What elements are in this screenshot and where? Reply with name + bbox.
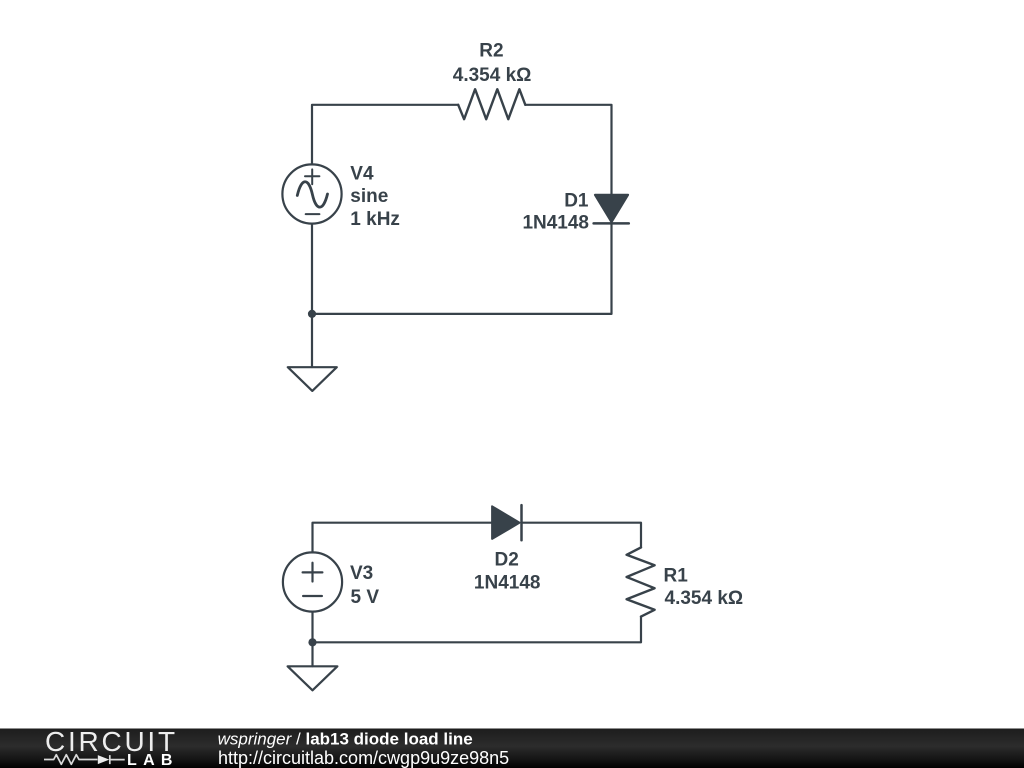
V4 sine wave (297, 182, 327, 207)
wire D2 cathode to resistor R1 top (522, 523, 642, 548)
svg-text:R2: R2 (479, 41, 503, 62)
resistor R1 zigzag (627, 547, 655, 616)
wire junction to ground 2 (311, 642, 313, 666)
voltage source V4 circle (282, 164, 341, 223)
footer black bar (0, 729, 1024, 768)
svg-text:5 V: 5 V (351, 587, 380, 608)
logo resistor squiggle (44, 755, 98, 765)
logo diode bar and lead (110, 755, 125, 764)
wire top-right: R2 right lead to diode D1 anode (525, 105, 611, 195)
wire right side down from D1 and bottom wire to junction (312, 223, 612, 314)
junction node dot (circuit 2) (308, 638, 316, 646)
V4 minus sign (306, 213, 320, 215)
svg-text:4.354 kΩ: 4.354 kΩ (665, 588, 744, 609)
svg-text:D2: D2 (495, 549, 519, 570)
svg-text:1N4148: 1N4148 (474, 572, 541, 593)
svg-text:R1: R1 (664, 565, 689, 586)
logo diode symbol (98, 755, 110, 764)
voltage source V3 circle (283, 552, 342, 611)
svg-text:wspringer / lab13 diode load l: wspringer / lab13 diode load line (218, 730, 473, 749)
diode D1 triangle (595, 195, 628, 222)
wire source V4 bottom to junction node (311, 224, 313, 314)
wire source V3 bottom to junction node (311, 612, 313, 643)
V3 minus sign (303, 595, 322, 597)
V4 plus sign (305, 169, 319, 184)
diode D1 cathode bar (594, 222, 629, 225)
diode D2 triangle (492, 506, 519, 539)
svg-text:1 kHz: 1 kHz (350, 209, 400, 230)
wire top-left: source top to resistor R2 left lead (312, 105, 458, 165)
svg-text:V4: V4 (350, 164, 374, 185)
junction node dot (circuit 1) (308, 310, 316, 318)
V3 plus sign (303, 563, 323, 582)
svg-text:sine: sine (350, 186, 388, 207)
diode D2 cathode bar (520, 505, 523, 540)
svg-text:LAB: LAB (127, 752, 179, 768)
resistor R2 zigzag (458, 89, 525, 119)
svg-text:http://circuitlab.com/cwgp9u9z: http://circuitlab.com/cwgp9u9ze98n5 (218, 748, 509, 768)
ground symbol (circuit 2) (288, 666, 338, 690)
wire junction to ground 1 (311, 314, 313, 367)
wire R1 bottom and circuit2 bottom wire to junction (313, 617, 642, 643)
svg-text:D1: D1 (564, 190, 589, 211)
svg-text:V3: V3 (350, 563, 373, 584)
svg-text:4.354 kΩ: 4.354 kΩ (453, 65, 532, 86)
ground symbol (circuit 1) (288, 367, 337, 391)
svg-text:1N4148: 1N4148 (522, 212, 589, 233)
wire circuit2 top-left: source V3 top to diode D2 anode (313, 523, 493, 553)
